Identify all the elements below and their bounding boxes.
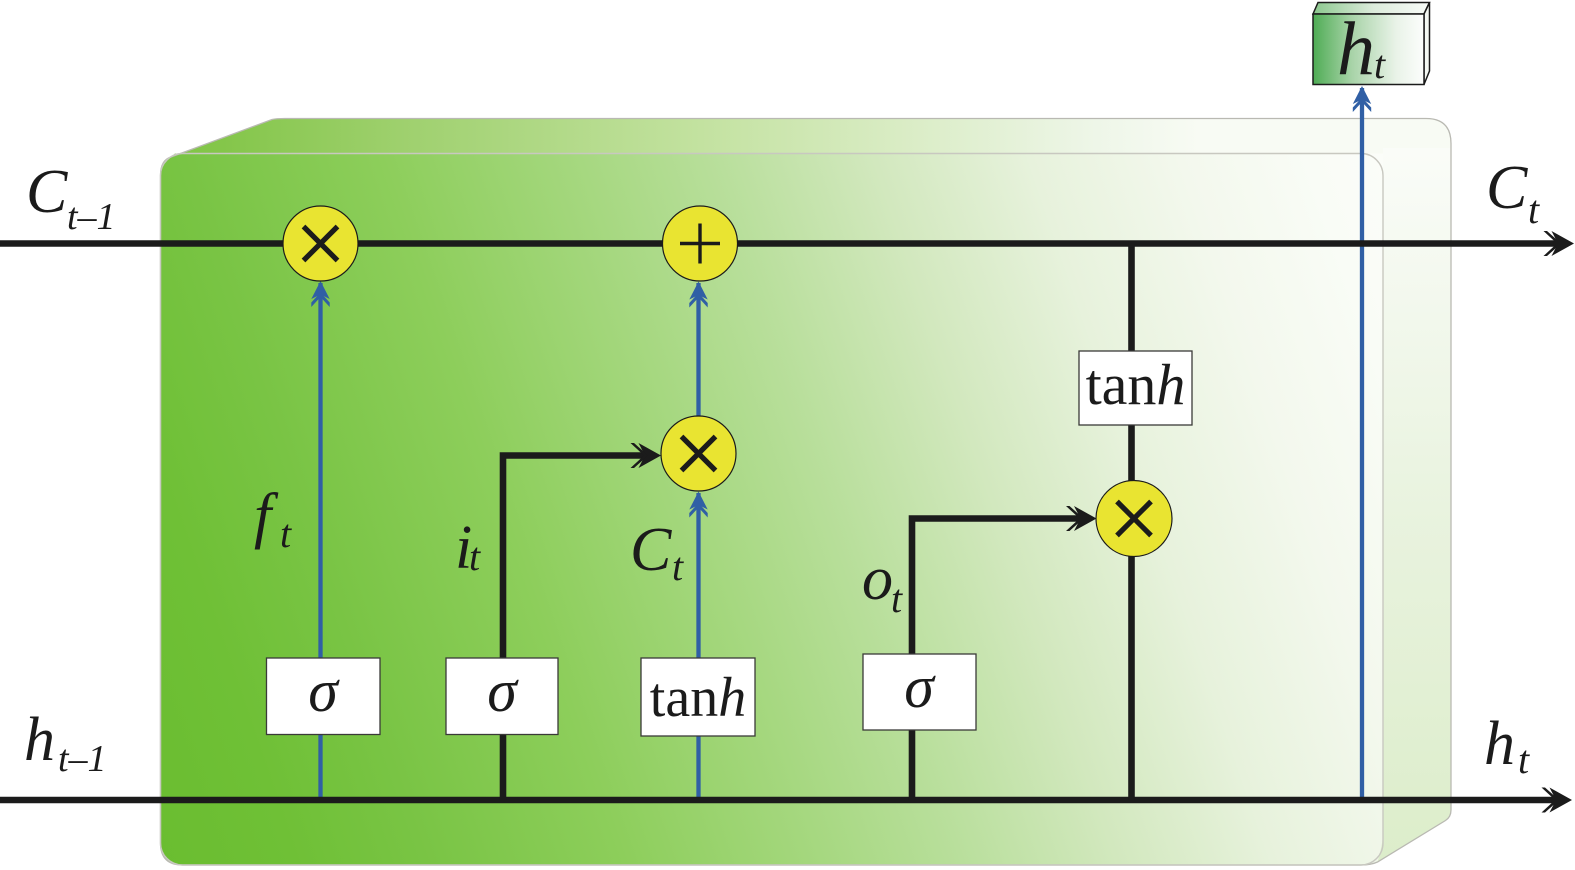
wire: output gate path to multiply bbox=[912, 519, 1084, 801]
wire: blue arrow tanh to multiply gate bbox=[696, 493, 700, 800]
svg-text:C: C bbox=[630, 516, 672, 584]
multiply gate circle 2 (candidate) bbox=[661, 416, 736, 491]
svg-text:t: t bbox=[469, 534, 481, 579]
wire: blue arrow h(t-1) to multiply gate f bbox=[318, 283, 322, 800]
LSTM cell slab silhouette (gradient body) bbox=[161, 119, 1452, 866]
front panel outline bbox=[161, 154, 1384, 866]
svg-text:h: h bbox=[1484, 710, 1515, 778]
plus gate circle bbox=[663, 206, 738, 281]
svg-text:h: h bbox=[24, 706, 55, 774]
svg-text:t: t bbox=[672, 544, 684, 589]
sigma box 3 (output gate) bbox=[863, 654, 976, 730]
svg-text:t: t bbox=[1518, 737, 1530, 782]
svg-text:t–1: t–1 bbox=[58, 738, 107, 780]
svg-text:tanh: tanh bbox=[1086, 352, 1186, 417]
slab top face strip bbox=[171, 119, 1451, 158]
svg-text:t: t bbox=[1374, 42, 1386, 87]
wire: input gate path to multiply bbox=[503, 456, 648, 801]
h(t) output 3D box right face bbox=[1424, 3, 1430, 85]
wire: C cell state line bbox=[0, 240, 1560, 247]
svg-text:σ: σ bbox=[487, 658, 519, 724]
slab silhouette outline bbox=[161, 119, 1452, 866]
tanh box 2 (output activation) bbox=[1079, 351, 1192, 425]
multiply gate circle 1 (forget) bbox=[283, 206, 358, 281]
svg-text:h: h bbox=[1337, 7, 1375, 91]
svg-text:tanh: tanh bbox=[650, 667, 746, 729]
sigma box 2 (input gate) bbox=[446, 658, 558, 735]
svg-text:C: C bbox=[1486, 154, 1528, 222]
wire: C line down through tanh to output multiply bbox=[1128, 244, 1135, 801]
svg-text:t: t bbox=[1528, 187, 1540, 232]
h(t) output 3D box front face bbox=[1313, 14, 1424, 85]
svg-text:σ: σ bbox=[308, 658, 340, 724]
h(t) output 3D box top face bbox=[1313, 3, 1430, 15]
tanh box 1 (candidate) bbox=[641, 658, 755, 736]
svg-text:σ: σ bbox=[904, 654, 936, 720]
svg-text:t–1: t–1 bbox=[67, 196, 116, 238]
svg-text:t: t bbox=[280, 511, 292, 556]
wire: blue arrow multiply to plus gate bbox=[696, 283, 700, 417]
svg-text:t: t bbox=[891, 576, 903, 621]
wire: blue arrow up to h(t) output box bbox=[1360, 88, 1364, 800]
svg-text:C: C bbox=[26, 158, 68, 226]
svg-text:o: o bbox=[862, 545, 893, 613]
wire: h output line bbox=[0, 797, 1560, 804]
sigma box 1 (forget gate) bbox=[267, 658, 381, 735]
multiply gate circle 3 (output) bbox=[1096, 481, 1172, 557]
slab right face strip bbox=[1378, 148, 1452, 862]
